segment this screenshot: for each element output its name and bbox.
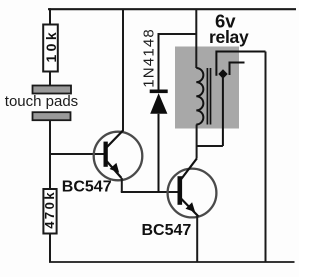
- resistor R2 470k: [42, 189, 57, 234]
- svg-text:10k: 10k: [43, 29, 59, 63]
- svg-text:1N4148: 1N4148: [140, 28, 157, 88]
- touch pad lower: [33, 112, 71, 120]
- wire coil bottom to Q2 collector: [196, 125, 198, 159]
- diode D1 1N4148: [150, 33, 168, 192]
- wire touch pad to R2: [49, 120, 51, 189]
- wire Q1 collector to rail: [122, 9, 124, 131]
- wire armature hook to coil bottom: [197, 145, 223, 147]
- svg-text:BC547: BC547: [142, 222, 192, 239]
- resistor R1: [43, 25, 59, 72]
- wire R1 top lead: [49, 8, 51, 24]
- wire D1 cathode to coil feed: [159, 33, 197, 35]
- wire Q1 emitter down: [121, 178, 123, 192]
- svg-text:BC547: BC547: [62, 179, 112, 196]
- wire R1 to touch pad: [49, 72, 51, 86]
- svg-text:470k: 470k: [42, 190, 57, 229]
- wire bottom 0V rail: [49, 261, 295, 263]
- wire R2 to 0V rail: [49, 234, 51, 263]
- wire right side down: [265, 52, 267, 263]
- wire Q1 base: [49, 153, 104, 155]
- transistor Q1 BC547: [94, 131, 143, 181]
- wire supply to relay coil: [195, 9, 197, 68]
- relay coil L1: [196, 68, 203, 124]
- relay core: [207, 68, 210, 125]
- relay armature pole: [218, 69, 227, 146]
- wire Q2 emitter to 0V: [196, 216, 198, 262]
- wire Q1 emitter to Q2 base: [121, 191, 178, 193]
- svg-text:relay: relay: [209, 27, 249, 47]
- transistor Q2 BC547: [168, 159, 217, 218]
- label 6v relay: [209, 10, 249, 47]
- svg-text:touch pads: touch pads: [5, 93, 78, 110]
- relay switch blade: [216, 52, 265, 76]
- touch pad upper: [33, 86, 72, 94]
- relay body: [175, 47, 239, 129]
- wire top supply rail: [48, 8, 296, 10]
- relay contact: [230, 63, 245, 76]
